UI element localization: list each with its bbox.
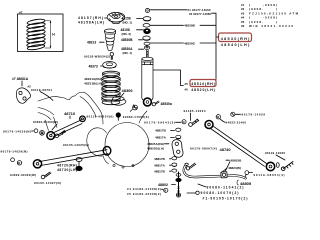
bushing no.2 dark: [144, 29, 151, 34]
svg-text:90105-14025(N): 90105-14025(N): [63, 143, 89, 147]
svg-text:#6: #6: [241, 24, 245, 28]
svg-text:94622-30400(W): 94622-30400(W): [10, 173, 36, 177]
svg-text:#5 94180-42008(2): #5 94180-42008(2): [127, 192, 161, 196]
connector to bus: [212, 13, 217, 79]
svg-text:W/B 48531-60240: W/B 48531-60240: [249, 24, 293, 28]
red box1: [216, 33, 252, 47]
svg-text:48530G: 48530G: [184, 41, 196, 45]
dimension line H: [45, 21, 51, 48]
svg-text:90080-17050(6): 90080-17050(6): [123, 115, 149, 119]
svg-text:48157(RH): 48157(RH): [78, 16, 103, 20]
spring upper seat: [107, 12, 125, 23]
retainer cup no.1: [143, 17, 151, 21]
line 48530B: [150, 24, 216, 26]
differential bulge: [105, 123, 149, 167]
svg-text:48540(LH): 48540(LH): [221, 43, 250, 47]
svg-text:90179-14029: 90179-14029: [242, 112, 266, 116]
legend: [241, 3, 299, 28]
svg-text:90179-08067(4): 90179-08067(4): [190, 146, 217, 150]
svg-text:W: W: [217, 115, 220, 119]
leader to 90177 labels: [150, 9, 187, 11]
axle housing outline: [38, 92, 149, 168]
svg-text:N: N: [183, 120, 185, 124]
svg-text:48231A(RH): 48231A(RH): [84, 77, 102, 81]
hex bolt above diff: [130, 105, 137, 112]
svg-text:94185-14024: 94185-14024: [184, 109, 206, 113]
small bolt above bar: [186, 163, 195, 170]
bolt at shock eye: [152, 101, 159, 106]
svg-text:48740: 48740: [220, 147, 232, 152]
lower seat part: [111, 96, 126, 105]
svg-text:48802: 48802: [158, 183, 168, 187]
svg-text:48313: 48313: [87, 41, 96, 45]
svg-text:48730(LH): 48730(LH): [57, 168, 77, 172]
svg-text:48231B(LH): 48231B(LH): [84, 82, 102, 86]
washer: [144, 42, 150, 45]
svg-text:48520(LH): 48520(LH): [191, 88, 215, 92]
svg-text:90080-10079(2): 90080-10079(2): [201, 191, 239, 195]
svg-text:48530a: 48530a: [161, 102, 172, 106]
shock mount nut: [145, 8, 149, 12]
spring inset box: [18, 14, 64, 52]
svg-text:48530B: 48530B: [121, 38, 133, 42]
lower control arm: [39, 150, 108, 166]
bolt under arm: [55, 130, 66, 137]
svg-text:(NO. 1): (NO. 1): [123, 21, 133, 25]
svg-text:(NO. 1): (NO. 1): [123, 51, 133, 55]
svg-text:90118-WB034(2): 90118-WB034(2): [84, 54, 110, 58]
svg-text:48817B: 48817B: [154, 157, 166, 161]
svg-text:48530B: 48530B: [184, 24, 196, 28]
coil spring 48231: [102, 71, 121, 105]
svg-text:48510(RH): 48510(RH): [191, 82, 215, 86]
svg-text:90105-14027(N): 90105-14027(N): [34, 181, 61, 185]
svg-text:90119-14060: 90119-14060: [265, 151, 285, 155]
svg-text:48824(B): 48824(B): [228, 166, 241, 170]
svg-text:#6: #6: [185, 88, 189, 92]
red box2: [185, 80, 217, 92]
link rod: [178, 172, 180, 196]
shock absorber: [142, 50, 153, 100]
svg-text:48710: 48710: [64, 111, 76, 116]
line 48530G: [151, 42, 217, 44]
svg-text:48306: 48306: [122, 88, 134, 93]
bushing+bracket on bar: [221, 172, 227, 178]
cushion washer: [143, 24, 150, 28]
svg-text:(0208- ): (0208- ): [249, 20, 277, 24]
coil spring (inset): [26, 18, 45, 50]
svg-text:94622-31400(W): 94622-31400(W): [33, 120, 58, 124]
bump stop 48313: [104, 29, 115, 50]
svg-text:48530(RH): 48530(RH): [221, 37, 250, 41]
icons + labels right top: [231, 112, 235, 116]
svg-text:90119-08034(6): 90119-08034(6): [87, 115, 114, 119]
svg-text:90179-14029(N): 90179-14029(N): [3, 129, 31, 133]
svg-text:94622-31400: 94622-31400: [226, 120, 247, 124]
right lower labels: [245, 171, 249, 175]
svg-text:#5: #5: [185, 82, 189, 86]
insulator 48373: [103, 62, 117, 69]
svg-text:90118-08761: 90118-08761: [31, 88, 52, 92]
svg-text:#2 90177-14060: #2 90177-14060: [189, 12, 211, 16]
svg-text:90119-08054(4): 90119-08054(4): [254, 173, 285, 177]
svg-text:48817B: 48817B: [155, 129, 167, 133]
svg-text:90179-14029(N): 90179-14029(N): [1, 149, 28, 153]
svg-text:90080-11041(2): 90080-11041(2): [207, 185, 244, 189]
svg-text:48817A: 48817A: [155, 136, 167, 140]
svg-text:90179-09043(3): 90179-09043(3): [144, 121, 175, 125]
svg-text:48817B: 48817B: [154, 169, 166, 173]
svg-text:#7 48681A: #7 48681A: [12, 77, 29, 81]
lateral rod 48740: [211, 126, 267, 167]
svg-text:48158A(LH): 48158A(LH): [78, 21, 104, 25]
svg-text:48373: 48373: [89, 64, 98, 68]
bolt right: [281, 162, 293, 171]
stabilizer bar: [184, 165, 246, 179]
svg-text:N: N: [164, 189, 166, 193]
svg-text:#4 94180-41008(2): #4 94180-41008(2): [127, 187, 161, 191]
bottom right labels: [198, 184, 206, 187]
leader shock to box2: [154, 70, 184, 86]
svg-text:(NO. 2): (NO. 2): [122, 32, 132, 36]
svg-text:48825B(LH): 48825B(LH): [147, 147, 164, 151]
ring: [144, 46, 149, 50]
upper control arm: [52, 120, 82, 137]
svg-text:48720(RH): 48720(RH): [57, 163, 77, 167]
svg-text:48825A(RH): 48825A(RH): [147, 142, 164, 146]
svg-text:48815B: 48815B: [231, 158, 243, 162]
cup washer: [143, 36, 150, 40]
svg-text:#1-90105-10170(2): #1-90105-10170(2): [203, 196, 248, 200]
leader: [105, 17, 108, 19]
link plate: [172, 140, 183, 158]
small part left of diff: [76, 158, 82, 162]
svg-text:#5: #5: [241, 20, 245, 24]
svg-text:48817A: 48817A: [154, 163, 166, 167]
